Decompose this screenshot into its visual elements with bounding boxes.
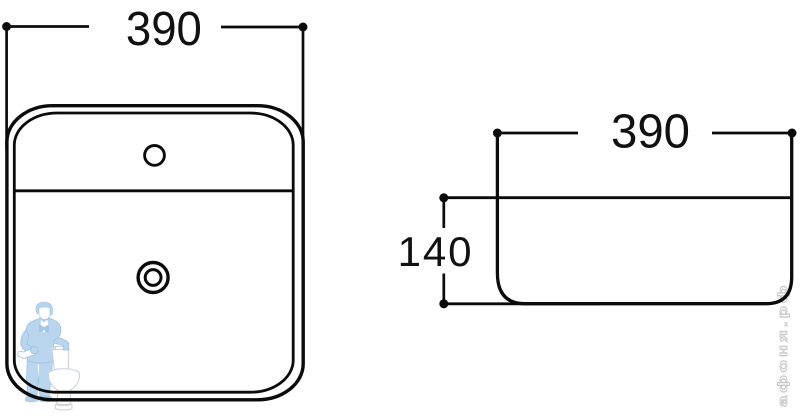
watermark toilet bbox=[48, 346, 79, 410]
legs bbox=[27, 361, 53, 397]
extension line left bbox=[5, 30, 8, 150]
bowl rim bbox=[48, 369, 79, 380]
140 bottom extension bbox=[444, 302, 600, 305]
140 dimension bbox=[442, 198, 445, 304]
left arm bbox=[21, 330, 34, 354]
shoes bbox=[25, 396, 37, 402]
drain inner bbox=[145, 270, 161, 286]
tank bbox=[52, 349, 69, 370]
torso jacket bbox=[24, 317, 61, 363]
side top dimension bbox=[497, 132, 792, 135]
drain outer bbox=[138, 263, 168, 293]
svg-text:140: 140 bbox=[398, 228, 472, 275]
dim line right segment bbox=[221, 26, 303, 29]
side body bbox=[497, 133, 791, 304]
watermark plumber logo bbox=[18, 302, 61, 402]
hand on wrench bbox=[31, 347, 39, 354]
face bbox=[39, 307, 50, 319]
hair bbox=[36, 302, 53, 315]
rim line / 140 top extension bbox=[444, 196, 791, 199]
watermark: plumber right arm over tank bbox=[54, 338, 69, 350]
top dimension (left view) bbox=[7, 27, 303, 163]
faucet hole bbox=[145, 146, 165, 166]
inner rim rounded square bbox=[14, 113, 293, 392]
shirt bbox=[40, 320, 48, 333]
bowl body bbox=[48, 376, 79, 393]
wrench bbox=[18, 349, 36, 359]
outer rim rounded square bbox=[7, 106, 303, 400]
svg-text:390: 390 bbox=[611, 104, 690, 158]
bow tie bbox=[40, 325, 49, 332]
dim line left segment bbox=[7, 25, 89, 28]
pedestal bbox=[57, 393, 71, 405]
basin divider line bbox=[15, 189, 293, 192]
dim dots left view bbox=[2, 22, 11, 31]
extension line right bbox=[302, 31, 305, 162]
svg-text:390: 390 bbox=[126, 2, 202, 56]
